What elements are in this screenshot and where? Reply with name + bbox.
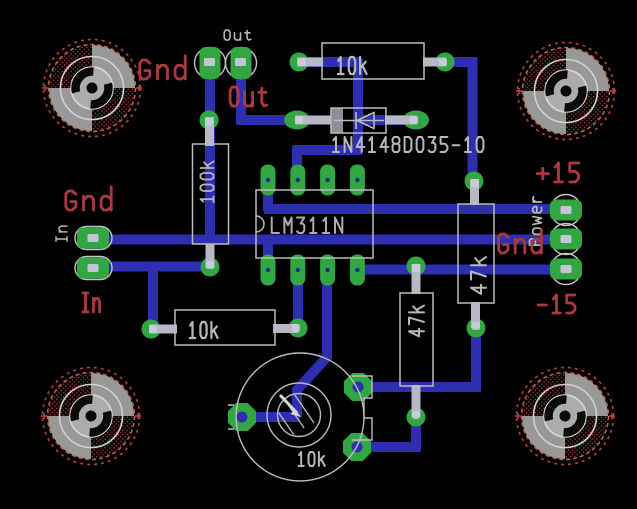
lead R4 left (149, 325, 177, 334)
label 47k R5 vertical (409, 306, 424, 337)
label In red left (83, 293, 100, 312)
pad R2.1 10k top left (290, 53, 309, 72)
wire vertical x358 through D1 body (353, 59, 363, 152)
pad JP3.3 -15 power header (550, 254, 582, 285)
label Gnd red top (140, 56, 185, 79)
lead R1 bottom (206, 244, 215, 268)
pad R2.2 10k top right (436, 53, 455, 72)
label In JP1 silk vertical (56, 226, 67, 241)
lead R2 left (297, 58, 323, 67)
pad U1.6 (320, 165, 335, 196)
pad JP3.1 +15 power header (550, 195, 582, 226)
wire R5 bottom via elbow to pot pad B (357, 417, 416, 447)
resistor R4 body outline 10k (175, 310, 275, 345)
lead R6 bottom (471, 302, 480, 328)
label Out header silk (224, 30, 251, 40)
label Out red (230, 87, 267, 106)
pad R1.2 100k bottom via (201, 258, 220, 277)
pad R5.2 47k left bottom (407, 408, 426, 427)
pad U1.5 (350, 165, 365, 196)
lead pin ends (205, 118, 213, 126)
resistor R6 body outline 47k (458, 204, 494, 303)
wire Out pad2 down elbow (241, 63, 297, 120)
label Gnd red right (499, 230, 542, 253)
wire +15 horizontal y209 (264, 204, 566, 214)
pad P1.B pot bottom right (343, 433, 371, 461)
label 47k R6 vertical (471, 257, 486, 294)
wire pot left pad to wiper (240, 412, 300, 422)
IC U1 body outline (248, 190, 373, 258)
label +15 red (537, 163, 578, 182)
pad JP1.1 Gnd header In (75, 227, 112, 250)
label 10k P1 (299, 452, 325, 466)
wire R2 right pad elbow down to R6 top (444, 62, 473, 182)
potentiometer P1 outline (228, 353, 372, 481)
pad D1.C diode right (403, 111, 429, 130)
resistor R5 body outline 47k (400, 293, 433, 386)
pad R4.2 10k bottom right (289, 319, 308, 338)
wire U1 pin to pot wiper (297, 268, 327, 417)
pad JP3.2 Gnd power header (550, 224, 582, 255)
wire In branch vertical x153 (148, 264, 158, 330)
wire +15 stub from U1 pin8 (263, 186, 273, 211)
label Power JP3 vertical (530, 197, 542, 246)
label -15 red (538, 295, 575, 313)
pad JP2.2 Out header (226, 47, 257, 79)
pad R5.1 47k left top (407, 257, 426, 276)
pad U1.3 (320, 255, 335, 286)
wire R2 left pad to x358 (297, 57, 361, 67)
pad U1.2 (290, 255, 305, 286)
pad R6.2 47k right bottom (467, 319, 486, 338)
resistor R2 body outline 10k (322, 43, 424, 79)
lead D1 right (385, 116, 417, 125)
wire Gnd vertical from JP2 pad1 through R1 (205, 58, 215, 244)
wire horizontal y150 (293, 145, 363, 155)
wire In horizontal y267 (88, 262, 214, 272)
pad P1.W pot left (228, 403, 256, 431)
mounting hole H1 top-left (42, 40, 142, 137)
wire R4 right pad up to U1 pin (293, 268, 303, 329)
lead R5 bottom (412, 385, 421, 417)
pad JP2.1 Gnd header Out (195, 47, 226, 79)
label 1N4148DO35-10 D1 (333, 137, 483, 152)
pad U1.1 (261, 255, 276, 286)
mounting hole H4 bottom-right (515, 368, 615, 465)
label LM311N U1 (272, 218, 343, 234)
mounting hole H2 top-right (516, 43, 616, 140)
wire Gnd stub to U1 pin1 (263, 240, 273, 258)
label 100k R1 vertical (201, 162, 214, 203)
pad R4.1 10k bottom left (142, 320, 161, 339)
pad R1.1 100k top (200, 111, 219, 130)
pad U1.8 (261, 165, 276, 196)
wire x358 to D1 right pad (354, 115, 418, 125)
label Gnd red left (66, 187, 111, 210)
lead R6 top (470, 179, 479, 205)
lead R1 top (205, 117, 214, 146)
lead R4 right (273, 324, 298, 333)
pad JP1.2 In header (75, 257, 112, 280)
wire -15 horizontal y270 (353, 265, 566, 275)
mounting hole H3 bottom-left (41, 368, 141, 465)
wire Gnd bus horizontal y240 (88, 235, 566, 245)
diode D1 body (331, 108, 386, 133)
label 10k R2 (338, 57, 367, 74)
wire R6 bottom elbow to pot pad A (357, 330, 476, 387)
lead R5 top (412, 264, 421, 294)
pad D1.A diode left (284, 111, 310, 130)
pad R6.1 47k right top (465, 172, 484, 191)
lead R2 right (423, 58, 446, 67)
wire stub x297 to U1 top pin (292, 147, 302, 181)
pad P1.A pot top right (344, 373, 372, 401)
pad U1.7 (290, 165, 305, 196)
lead D1 left (295, 116, 333, 125)
resistor R1 body outline 100k (193, 144, 229, 244)
pad U1.4 (350, 255, 365, 286)
label 10k R4 (190, 322, 218, 338)
